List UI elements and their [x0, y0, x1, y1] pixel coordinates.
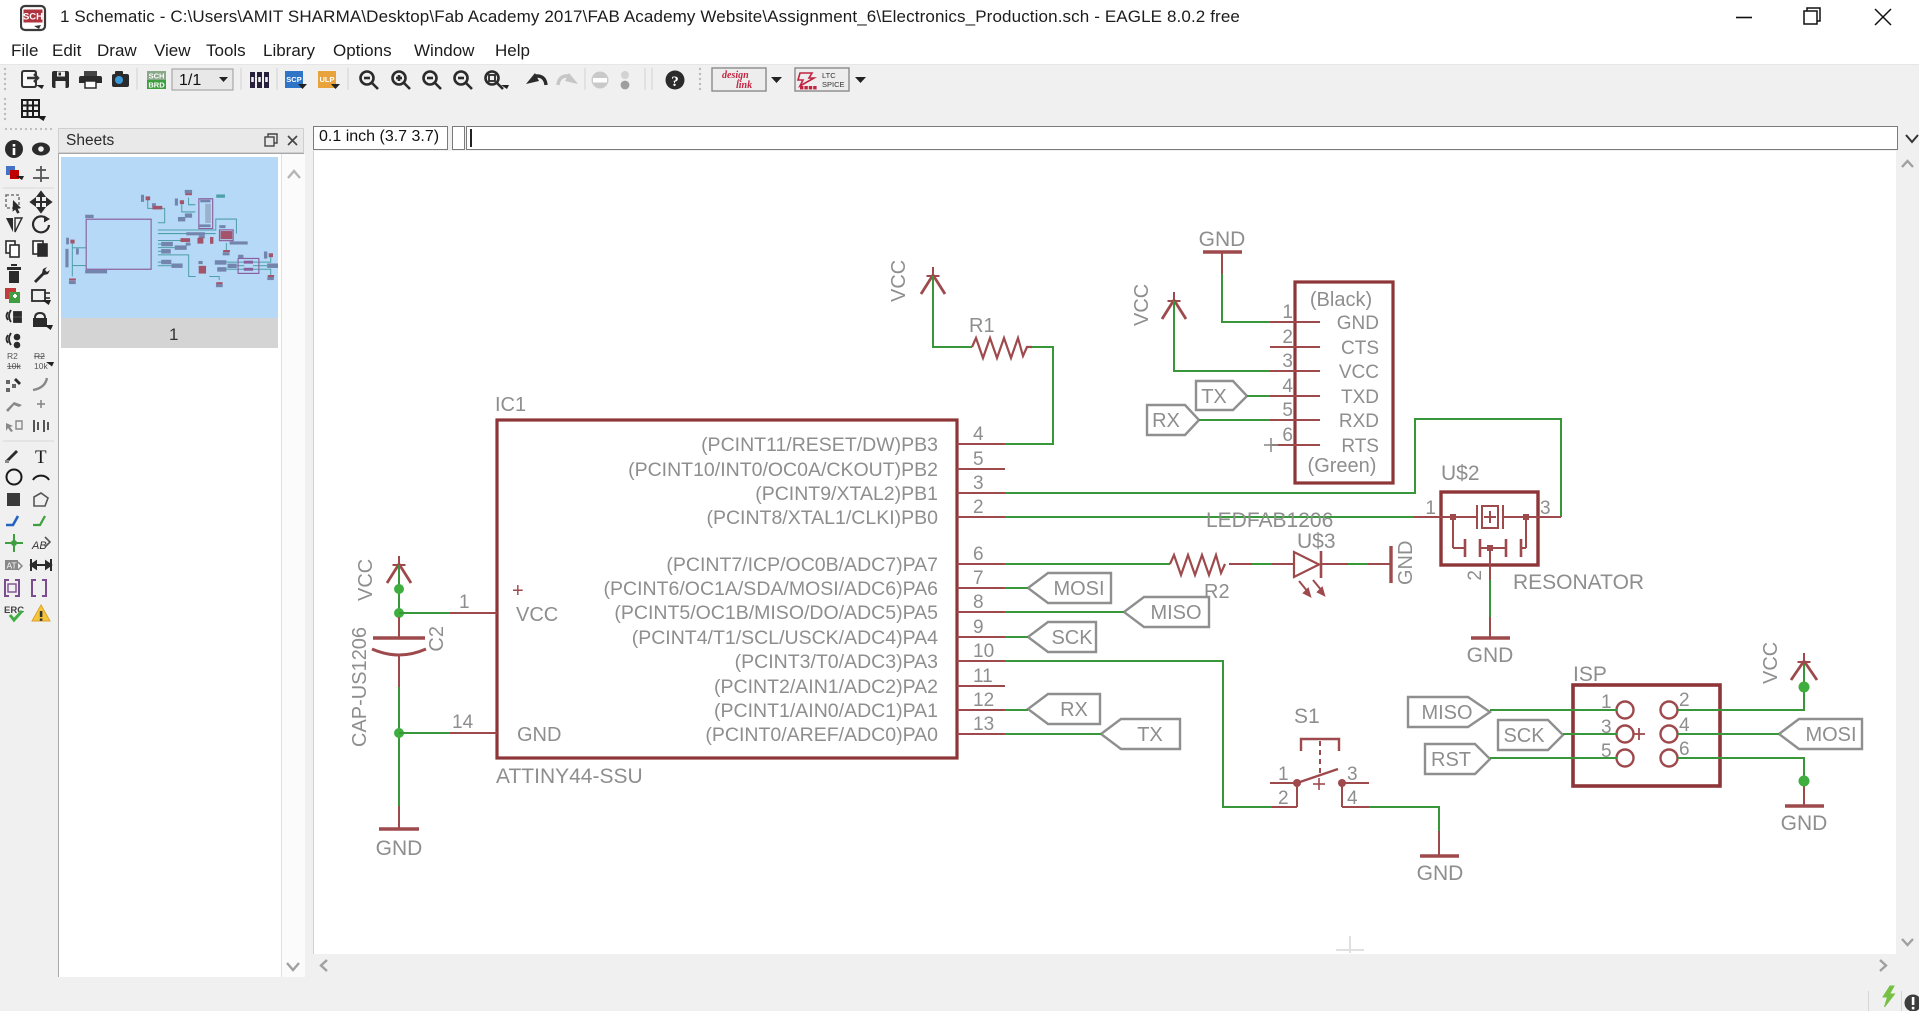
svg-text:1/1: 1/1	[179, 72, 201, 89]
MISO flag at IC PA5	[1124, 597, 1209, 627]
svg-text:2: 2	[1679, 690, 1690, 711]
R1 name label	[969, 315, 995, 337]
FTDI (Green) label	[1308, 455, 1377, 477]
svg-text:MOSI: MOSI	[1805, 724, 1856, 746]
FTDI connector body	[1295, 282, 1393, 483]
svg-text:(PCINT7/ICP/OC0B/ADC7)PA7: (PCINT7/ICP/OC0B/ADC7)PA7	[666, 554, 938, 576]
resonator U$2 name	[1441, 462, 1480, 485]
wire RX to FTDI pin5	[1199, 419, 1270, 421]
wire C2 to GND	[398, 687, 400, 806]
GND text below C2	[376, 837, 423, 860]
svg-text:4: 4	[1347, 788, 1358, 809]
circle / arc	[7, 470, 22, 485]
svg-text:RST: RST	[1431, 749, 1471, 771]
svg-text:6: 6	[973, 544, 984, 565]
svg-text:(PCINT4/T1/SCL/USCK/ADC4)PA4: (PCINT4/T1/SCL/USCK/ADC4)PA4	[632, 627, 938, 649]
FTDI pin numbers	[1282, 302, 1293, 446]
svg-text:(PCINT5/OC1B/MISO/DO/ADC5)PA5: (PCINT5/OC1B/MISO/DO/ADC5)PA5	[614, 602, 938, 624]
split / dot	[6, 402, 22, 412]
TX flag to FTDI	[1196, 381, 1247, 410]
svg-text:LTC: LTC	[822, 71, 836, 80]
IC1 VCC pin label	[516, 604, 558, 626]
toolbar row 1	[0, 64, 1919, 92]
wire ISP pin4 to MOSI	[1678, 733, 1779, 735]
GND text right	[1781, 812, 1828, 835]
svg-text:2: 2	[1278, 788, 1289, 809]
svg-text:BRD: BRD	[148, 81, 165, 90]
svg-text:AT: AT	[7, 561, 17, 571]
svg-text:11: 11	[973, 666, 993, 687]
wire MISO to IC	[1005, 611, 1124, 613]
resonator pin2 stem	[1489, 548, 1491, 580]
IC1 GND pin label	[517, 724, 561, 746]
junction dot	[394, 608, 404, 618]
GND bar above FTDI	[1203, 252, 1242, 274]
svg-text:5: 5	[973, 449, 984, 470]
svg-text:R1: R1	[969, 315, 995, 337]
svg-text:5: 5	[1282, 400, 1293, 421]
svg-text:RX: RX	[1152, 410, 1180, 432]
C2 value CAP-US1206	[349, 627, 371, 747]
capacitor C2	[372, 617, 426, 687]
sheet 1 thumbnail	[61, 157, 278, 348]
trash / wrench	[7, 264, 21, 283]
IC1 value label ATTINY44-SSU	[496, 765, 643, 788]
wire RX to IC	[1005, 709, 1028, 711]
wire ISP pin6 to GND	[1678, 758, 1804, 786]
S1 name label	[1294, 705, 1320, 728]
supply VCC symbol at FTDI	[1162, 292, 1186, 319]
GND text below S1	[1417, 862, 1464, 885]
wire VCC to R1	[933, 276, 972, 347]
wire GND to FTDI pin1	[1222, 274, 1270, 322]
svg-text:GND: GND	[1417, 862, 1464, 885]
RESONATOR value label	[1513, 571, 1644, 594]
svg-text:(Black): (Black)	[1310, 289, 1372, 311]
wire S1 to GND	[1369, 807, 1439, 831]
ERC / errors	[4, 605, 24, 620]
svg-text:(PCINT1/AIN0/ADC1)PA1: (PCINT1/AIN0/ADC1)PA1	[714, 700, 938, 722]
ISP pad cross pin3	[1633, 728, 1645, 740]
resistor R2	[1170, 555, 1225, 575]
ground symbol right	[1785, 804, 1824, 807]
svg-text:GND: GND	[517, 724, 561, 746]
svg-text:9: 9	[973, 617, 984, 638]
svg-text:1: 1	[1425, 498, 1436, 519]
junction dot	[394, 584, 404, 594]
wire R2 to LED	[1229, 563, 1294, 565]
VCC text right	[1760, 642, 1782, 684]
svg-text:1: 1	[1282, 302, 1293, 323]
IC1 pin 1 number	[459, 592, 470, 613]
svg-text:(PCINT11/RESET/DW)PB3: (PCINT11/RESET/DW)PB3	[701, 434, 938, 456]
svg-text:6: 6	[1679, 739, 1690, 760]
svg-text:10k: 10k	[7, 361, 21, 371]
resonator pin2 number	[1465, 570, 1486, 581]
svg-text:VCC: VCC	[1339, 362, 1379, 383]
svg-text:2: 2	[1282, 327, 1293, 348]
svg-text:RXD: RXD	[1339, 411, 1379, 432]
ground symbol below C2	[379, 806, 419, 829]
gateswap	[7, 333, 20, 347]
svg-text:2: 2	[1465, 570, 1486, 581]
ground symbol below resonator	[1471, 617, 1510, 638]
GND text below resonator	[1467, 644, 1514, 667]
left tool column	[0, 126, 57, 1011]
FTDI (Black) label	[1310, 289, 1372, 311]
select / move	[6, 195, 19, 208]
resonator junction squares	[1450, 514, 1529, 551]
svg-text:SCK: SCK	[1051, 627, 1093, 649]
svg-text:MISO: MISO	[1421, 702, 1472, 724]
svg-text:SCH: SCH	[23, 12, 43, 23]
horizontal scrollbar	[313, 954, 1896, 977]
copy / paste	[6, 241, 19, 257]
FTDI pin stubs	[1270, 322, 1320, 445]
svg-text:RESONATOR: RESONATOR	[1513, 571, 1644, 594]
MISO flag to ISP pin1	[1408, 697, 1490, 727]
svg-text:3: 3	[973, 473, 984, 494]
svg-text:3: 3	[1347, 764, 1358, 785]
svg-text:RTS: RTS	[1341, 436, 1379, 457]
S1 cross mark	[1313, 778, 1325, 790]
RX flag at IC PA1	[1028, 694, 1100, 724]
svg-text:12: 12	[973, 690, 994, 711]
pinswap / lock	[7, 310, 22, 322]
name / value	[7, 351, 21, 371]
IC1 right pin names	[604, 434, 939, 746]
svg-text:1: 1	[169, 325, 178, 344]
wire TX to FTDI pin4	[1247, 395, 1270, 397]
svg-text:R2: R2	[34, 351, 45, 361]
wire TX to IC	[1005, 733, 1101, 735]
svg-text:(PCINT0/AREF/ADC0)PA0: (PCINT0/AREF/ADC0)PA0	[705, 724, 938, 746]
main canvas with schematic	[313, 151, 1896, 954]
layers / mark	[6, 166, 24, 180]
rect / polygon	[7, 493, 20, 506]
wire resonator pin2 to GND	[1489, 580, 1491, 617]
svg-text:ISP: ISP	[1573, 663, 1607, 686]
VCC text above R1	[888, 260, 910, 302]
svg-text:MOSI: MOSI	[1053, 578, 1104, 600]
LEDFAB1206 label	[1206, 509, 1333, 532]
svg-text:4: 4	[1679, 715, 1690, 736]
IC1 pin 14 number	[452, 712, 474, 733]
svg-text:1: 1	[459, 592, 470, 613]
supply VCC symbol left	[387, 556, 411, 583]
svg-text:SCP: SCP	[286, 75, 301, 84]
ground symbol below S1	[1420, 831, 1459, 856]
svg-text:4: 4	[973, 424, 984, 445]
svg-text:GND: GND	[1467, 644, 1514, 667]
ground symbol above FTDI	[1199, 228, 1246, 251]
svg-text:CTS: CTS	[1341, 338, 1379, 359]
svg-text:1: 1	[1278, 764, 1289, 785]
MOSI flag at ISP pin4	[1779, 719, 1862, 749]
svg-text:VCC: VCC	[1131, 284, 1153, 326]
resonator pin1 stub	[1414, 516, 1453, 518]
title bar	[0, 0, 1919, 36]
junction dot	[394, 728, 404, 738]
svg-text:GND: GND	[376, 837, 423, 860]
status bar	[0, 977, 1919, 1011]
svg-text:MISO: MISO	[1150, 602, 1201, 624]
svg-text:U$3: U$3	[1297, 530, 1336, 553]
svg-text:10k: 10k	[34, 361, 48, 371]
menu bar	[0, 36, 1919, 64]
LED U$3	[1294, 551, 1321, 578]
U$3 name label	[1297, 530, 1336, 553]
frame icons	[5, 580, 19, 596]
svg-text:14: 14	[452, 712, 474, 733]
junction dot at VCC	[1799, 682, 1810, 693]
resonator internal crystal	[1453, 505, 1526, 529]
svg-text:VCC: VCC	[516, 604, 558, 626]
ISP pin numbers	[1601, 690, 1690, 762]
IC1 right pin stubs	[957, 444, 1005, 734]
wire IC PB1 to resonator pin3	[1005, 419, 1561, 517]
svg-text:link: link	[736, 80, 752, 91]
R2 name label	[1204, 581, 1230, 603]
wire / text	[5, 450, 18, 463]
wire MISO to ISP	[1490, 709, 1617, 711]
SCK flag at IC PA4	[1028, 622, 1096, 652]
svg-text:(PCINT10/INT0/OC0A/CKOUT)PB2: (PCINT10/INT0/OC0A/CKOUT)PB2	[628, 459, 938, 481]
supply VCC symbol above R1	[921, 267, 945, 294]
GND text at LED	[1395, 541, 1417, 585]
resonator internal caps	[1453, 515, 1526, 557]
wire IC PB0 to resonator pin1	[1005, 516, 1414, 518]
RX flag to FTDI	[1147, 405, 1199, 435]
svg-text:AB: AB	[31, 540, 47, 552]
ISP connector body	[1573, 685, 1720, 786]
resonator pin3 stub	[1526, 516, 1561, 518]
svg-text:TXD: TXD	[1341, 387, 1379, 408]
S1 pin stubs	[1270, 783, 1369, 807]
svg-text:T: T	[35, 447, 47, 468]
IC1 ATTINY44-SSU body	[497, 420, 957, 758]
wire VCC to FTDI pin3	[1174, 301, 1270, 371]
svg-text:(PCINT8/XTAL1/CLKI)PB0: (PCINT8/XTAL1/CLKI)PB0	[706, 507, 938, 529]
svg-text:(PCINT6/OC1A/SDA/MOSI/ADC6)PA6: (PCINT6/OC1A/SDA/MOSI/ADC6)PA6	[604, 578, 938, 600]
svg-text:8: 8	[973, 592, 984, 613]
IC1 left pin stubs (pin1 VCC, pin14 GND)	[448, 613, 497, 733]
MOSI flag at IC PA6	[1028, 573, 1111, 603]
svg-text:GND: GND	[1781, 812, 1828, 835]
wire node to IC pin14	[399, 732, 450, 734]
vertical scrollbar	[1896, 151, 1919, 954]
info / eye	[5, 140, 23, 158]
VCC text left	[355, 559, 377, 601]
S1 pin numbers	[1278, 764, 1358, 809]
wire ISP pin2 to VCC	[1678, 662, 1804, 710]
svg-text:10: 10	[973, 641, 994, 662]
svg-text:2: 2	[973, 497, 984, 518]
svg-text:SCK: SCK	[1503, 725, 1545, 747]
svg-text:U$2: U$2	[1441, 462, 1480, 485]
wire VCC to C2 node	[398, 565, 400, 617]
svg-text:R2: R2	[7, 351, 18, 361]
sheet origin cross	[1336, 936, 1364, 953]
svg-text:ULP: ULP	[320, 75, 335, 84]
junction / label	[5, 534, 23, 552]
IC1 plus mark	[512, 580, 524, 602]
junction dot at GND right	[1799, 776, 1810, 787]
svg-text:VCC: VCC	[1760, 642, 1782, 684]
svg-text:TX: TX	[1201, 386, 1227, 408]
svg-text:ATTINY44-SSU: ATTINY44-SSU	[496, 765, 643, 788]
svg-text:TX: TX	[1137, 724, 1163, 746]
ground symbol rotated at LED	[1389, 546, 1392, 583]
ISP name label	[1573, 663, 1607, 686]
svg-text:RX: RX	[1060, 699, 1088, 721]
svg-text:(PCINT2/AIN1/ADC2)PA2: (PCINT2/AIN1/ADC2)PA2	[714, 676, 938, 698]
FTDI unconnected cross on RTS pin	[1264, 438, 1278, 452]
smash / miter	[6, 378, 21, 392]
svg-text:3: 3	[1282, 351, 1293, 372]
svg-text:C2: C2	[426, 626, 448, 652]
svg-text:VCC: VCC	[355, 559, 377, 601]
mirror / rotate	[6, 218, 22, 232]
add part / gate	[5, 288, 20, 303]
IC1 name label	[495, 394, 526, 416]
svg-text:S1: S1	[1294, 705, 1320, 728]
svg-text:IC1: IC1	[495, 394, 526, 416]
supply VCC symbol right	[1791, 653, 1817, 680]
coordinate bar	[310, 126, 1919, 151]
svg-text:7: 7	[973, 568, 984, 589]
SCK flag to ISP pin3	[1498, 720, 1563, 750]
attribute / dimension	[5, 560, 22, 571]
S1 contact dots	[1293, 779, 1346, 787]
toolbar row 2	[0, 92, 1919, 126]
svg-text:(PCINT9/XTAL2)PB1: (PCINT9/XTAL2)PB1	[755, 483, 938, 505]
switch S1 symbol	[1297, 739, 1339, 783]
svg-text:3: 3	[1540, 498, 1551, 519]
svg-text:GND: GND	[1395, 541, 1417, 585]
resonator pin1 number	[1425, 498, 1436, 519]
sheets panel bottom scroll arrow	[280, 955, 306, 977]
wire node to IC pin1	[399, 612, 450, 614]
resonator pin3 number	[1540, 498, 1551, 519]
svg-text:SCH: SCH	[149, 72, 165, 81]
RST flag to ISP pin5	[1425, 744, 1490, 774]
svg-text:VCC: VCC	[888, 260, 910, 302]
FTDI pin labels	[1337, 313, 1379, 457]
svg-text:LEDFAB1206: LEDFAB1206	[1206, 509, 1333, 532]
svg-text:CAP-US1206: CAP-US1206	[349, 627, 371, 747]
svg-text:4: 4	[1282, 376, 1293, 397]
svg-text:6: 6	[1282, 425, 1293, 446]
svg-text:SPICE: SPICE	[822, 80, 845, 89]
ISP pads	[1617, 702, 1678, 767]
wire SCK to IC	[1005, 636, 1028, 638]
TX flag at IC PA0	[1101, 719, 1180, 749]
invoke / align	[6, 421, 22, 432]
svg-text:(PCINT3/T0/ADC3)PA3: (PCINT3/T0/ADC3)PA3	[735, 651, 938, 673]
bus / net	[6, 516, 18, 525]
wire RST to ISP	[1490, 757, 1617, 759]
IC1 right pin numbers	[973, 424, 994, 735]
svg-text:(Green): (Green)	[1308, 455, 1377, 477]
svg-text:GND: GND	[1337, 313, 1379, 334]
wire MOSI to IC	[1005, 587, 1028, 589]
C2 name label	[426, 626, 448, 652]
LED arrows	[1299, 580, 1324, 596]
svg-text:13: 13	[973, 714, 994, 735]
svg-text:+: +	[512, 580, 524, 602]
VCC text at FTDI	[1131, 284, 1153, 326]
svg-text:?: ?	[671, 74, 679, 90]
wire SCK to ISP	[1563, 733, 1617, 735]
wire IC PA7 to R2	[1005, 563, 1170, 565]
wire IC PA3 to switch S1	[1005, 661, 1272, 807]
resistor R1	[972, 338, 1032, 358]
sheets panel	[58, 126, 304, 1011]
svg-text:GND: GND	[1199, 228, 1246, 251]
wire R1 to IC pin4	[1005, 347, 1053, 444]
wire LED to GND	[1321, 563, 1390, 565]
resonator U$2 body	[1441, 492, 1538, 565]
